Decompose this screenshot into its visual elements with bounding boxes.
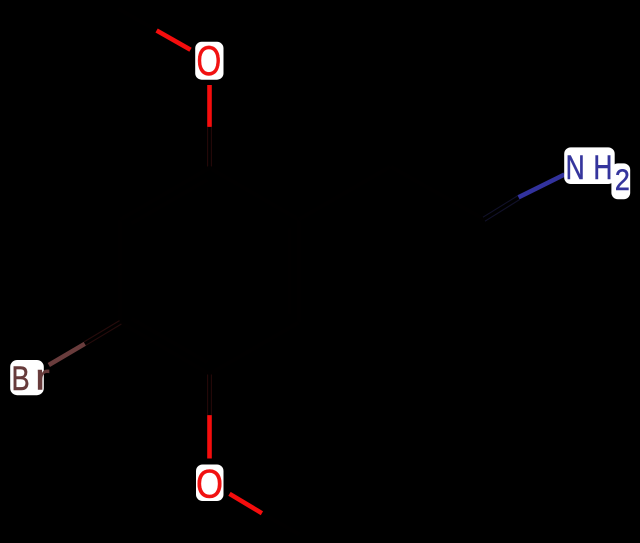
wire: bond O(bottom)-CH3, oxygen half — [230, 494, 263, 514]
wire: bond CH3-O(top), carbon half — [118, 9, 156, 30]
wire: bond CH2b-N, nitrogen half — [519, 175, 565, 198]
node: NH2 label box (subscript 2) — [611, 163, 630, 199]
node: O bottom label box — [196, 465, 224, 502]
node: Br label box — [10, 360, 44, 395]
wire: bond C4-Br, carbon half ghost outline — [84, 321, 121, 346]
wire: bond O(top)-C2, oxygen half — [207, 85, 212, 127]
wire: bond CH2b-N, carbon half ghost outline — [483, 196, 520, 221]
wire: bond C5-O(bottom), oxygen half — [207, 415, 212, 458]
wire: ring bond C3-C2 — [120, 168, 209, 220]
svg-text:r: r — [35, 356, 50, 398]
svg-text:N: N — [566, 147, 585, 186]
wire: bond C4-Br, bromine half — [49, 344, 85, 365]
svg-text:O: O — [196, 461, 223, 506]
wire: ring double bond C1-C6 inner — [287, 228, 292, 315]
wire: ring bond C6-C5 — [210, 323, 299, 375]
wire: ring bond C5-C4 — [120, 323, 209, 375]
node: O top label box — [195, 42, 223, 80]
wire: bond CH2a-CH2b — [391, 167, 485, 220]
wire: ring bond C2-C1 — [210, 168, 299, 220]
svg-text:O: O — [196, 37, 221, 84]
wire: bond O(bottom)-CH3, carbon half — [262, 513, 300, 534]
wire: bond C5-O(bottom), carbon half ghost outline — [208, 375, 212, 416]
wire: bond CH3-O(top), oxygen half — [157, 31, 191, 50]
wire: bond C1-CH2a — [299, 167, 391, 220]
svg-text:2: 2 — [615, 163, 630, 197]
wire: bond O(top)-C2, carbon half ghost outline — [208, 127, 212, 168]
node: NH2 label box (NH) — [564, 147, 615, 184]
svg-text:H: H — [593, 147, 612, 186]
wire: ring bond C4-C3 — [118, 220, 123, 323]
svg-text:B: B — [12, 359, 30, 398]
wire: ring bond C1-C6 — [296, 220, 301, 323]
wire: ring double bond C3-C2 inner — [131, 180, 207, 224]
wire: ring double bond C5-C4 inner — [131, 319, 207, 363]
